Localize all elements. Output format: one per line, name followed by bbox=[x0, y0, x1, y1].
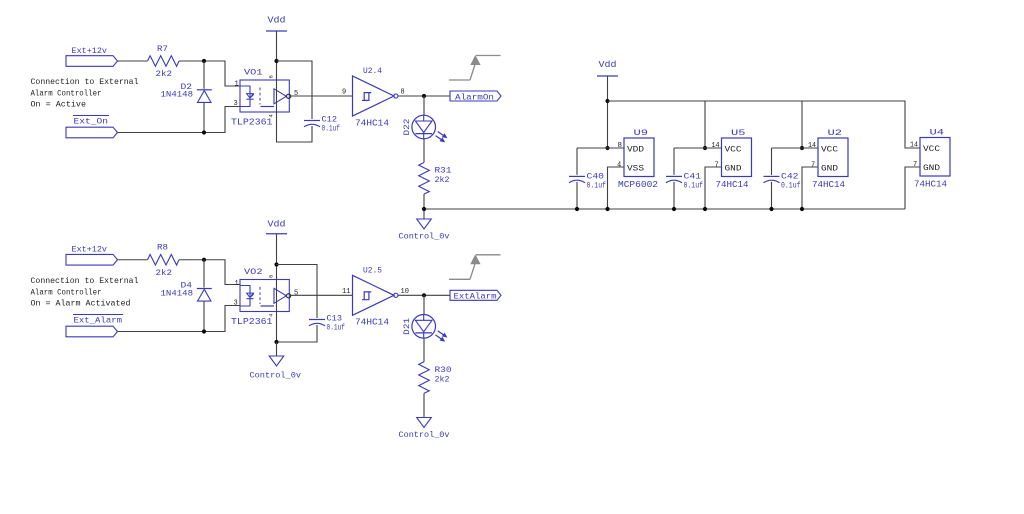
svg-text:8: 8 bbox=[401, 89, 405, 97]
svg-text:On = Active: On = Active bbox=[31, 100, 87, 110]
svg-text:U2.5: U2.5 bbox=[363, 265, 382, 275]
svg-text:11: 11 bbox=[342, 288, 350, 296]
svg-text:14: 14 bbox=[808, 142, 816, 150]
svg-text:GND: GND bbox=[821, 165, 838, 174]
svg-text:VSS: VSS bbox=[627, 165, 644, 174]
svg-text:On = Alarm Activated: On = Alarm Activated bbox=[31, 299, 131, 309]
svg-text:VCC: VCC bbox=[821, 145, 838, 154]
svg-text:2k2: 2k2 bbox=[435, 374, 450, 384]
svg-text:Ext_Alarm: Ext_Alarm bbox=[74, 316, 123, 326]
svg-text:GND: GND bbox=[725, 165, 742, 174]
svg-text:7: 7 bbox=[715, 161, 719, 169]
svg-text:7: 7 bbox=[913, 161, 917, 169]
svg-text:8: 8 bbox=[618, 142, 623, 150]
svg-text:2k2: 2k2 bbox=[156, 69, 173, 79]
svg-text:9: 9 bbox=[342, 89, 346, 97]
svg-text:GND: GND bbox=[923, 164, 940, 173]
svg-text:6: 6 bbox=[268, 275, 275, 278]
svg-text:R31: R31 bbox=[435, 166, 452, 176]
svg-text:1N4148: 1N4148 bbox=[161, 288, 194, 298]
svg-text:74HC14: 74HC14 bbox=[355, 119, 389, 129]
svg-text:1: 1 bbox=[235, 81, 239, 89]
svg-text:74HC14: 74HC14 bbox=[355, 318, 389, 328]
svg-text:Ext+12v: Ext+12v bbox=[72, 46, 108, 56]
svg-text:U2: U2 bbox=[828, 128, 843, 138]
svg-text:Vdd: Vdd bbox=[268, 220, 286, 230]
svg-text:U4: U4 bbox=[930, 128, 945, 138]
svg-text:ExtAlarm: ExtAlarm bbox=[454, 292, 497, 302]
svg-text:0.1uf: 0.1uf bbox=[327, 323, 346, 333]
svg-text:U5: U5 bbox=[731, 128, 746, 138]
svg-text:6: 6 bbox=[268, 75, 275, 78]
svg-text:D22: D22 bbox=[402, 119, 412, 136]
svg-text:Control_0v: Control_0v bbox=[399, 430, 450, 440]
svg-text:0.1uf: 0.1uf bbox=[684, 181, 704, 191]
svg-text:Connection to External: Connection to External bbox=[31, 77, 139, 87]
svg-text:3: 3 bbox=[234, 100, 238, 108]
svg-text:7: 7 bbox=[811, 161, 815, 169]
svg-text:VDD: VDD bbox=[627, 145, 644, 154]
svg-text:D21: D21 bbox=[402, 318, 412, 335]
svg-text:14: 14 bbox=[712, 142, 720, 150]
svg-text:AlarmOn: AlarmOn bbox=[455, 92, 494, 102]
svg-text:Vdd: Vdd bbox=[268, 16, 286, 26]
svg-text:5: 5 bbox=[294, 289, 298, 297]
svg-text:1N4148: 1N4148 bbox=[161, 90, 194, 100]
svg-text:Ext+12v: Ext+12v bbox=[72, 245, 108, 255]
svg-text:Alarm Controller: Alarm Controller bbox=[31, 287, 102, 297]
svg-text:74HC14: 74HC14 bbox=[812, 180, 845, 190]
svg-text:10: 10 bbox=[401, 288, 409, 296]
svg-text:Vdd: Vdd bbox=[599, 60, 617, 70]
svg-text:0.1uf: 0.1uf bbox=[587, 181, 607, 191]
svg-text:2k2: 2k2 bbox=[156, 268, 173, 278]
svg-text:VO1: VO1 bbox=[244, 67, 263, 77]
svg-text:3: 3 bbox=[234, 300, 238, 308]
svg-text:Alarm Controller: Alarm Controller bbox=[31, 88, 102, 98]
svg-text:R30: R30 bbox=[435, 365, 452, 375]
svg-text:Ext_On: Ext_On bbox=[74, 117, 109, 127]
svg-text:Control_0v: Control_0v bbox=[250, 371, 302, 381]
svg-text:4: 4 bbox=[617, 161, 621, 169]
svg-text:74HC14: 74HC14 bbox=[716, 180, 749, 190]
svg-text:VCC: VCC bbox=[725, 145, 742, 154]
svg-text:R8: R8 bbox=[157, 243, 168, 253]
svg-text:VO2: VO2 bbox=[244, 267, 263, 277]
svg-text:U9: U9 bbox=[634, 128, 649, 138]
svg-text:VCC: VCC bbox=[923, 145, 940, 154]
svg-text:74HC14: 74HC14 bbox=[914, 180, 947, 190]
svg-text:2k2: 2k2 bbox=[435, 175, 450, 185]
svg-text:1: 1 bbox=[235, 280, 239, 288]
svg-text:MCP6002: MCP6002 bbox=[618, 180, 658, 190]
svg-text:0.1uf: 0.1uf bbox=[781, 181, 801, 191]
svg-text:Control_0v: Control_0v bbox=[399, 232, 450, 242]
svg-text:0.1uf: 0.1uf bbox=[322, 124, 341, 134]
svg-text:14: 14 bbox=[910, 142, 918, 150]
svg-text:5: 5 bbox=[294, 90, 298, 98]
svg-text:Connection to External: Connection to External bbox=[31, 276, 139, 286]
svg-text:R7: R7 bbox=[157, 44, 168, 54]
svg-text:U2.4: U2.4 bbox=[363, 66, 382, 76]
